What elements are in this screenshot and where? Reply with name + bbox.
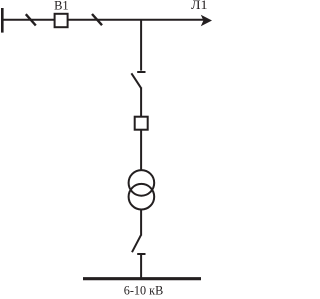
breaker slash mark 2: [92, 14, 102, 25]
node: left source terminal bar: [1, 8, 4, 33]
transformer T1 primary winding: [129, 170, 155, 196]
svg-text:В1: В1: [54, 0, 69, 12]
wire: fuse to transformer: [140, 130, 142, 171]
arrowhead of line L1: [201, 15, 212, 27]
disconnector QS1 contact tick: [137, 71, 145, 73]
breaker slash mark 1: [26, 14, 36, 25]
svg-text:6-10 кВ: 6-10 кВ: [124, 282, 164, 297]
switch B1 (box): [55, 14, 68, 27]
svg-text:Л1: Л1: [191, 0, 208, 12]
wire: between disconnector and fuse: [140, 88, 142, 118]
wire: transformer to lower disconnector: [140, 209, 142, 236]
disconnector QS1 blade: [131, 73, 141, 88]
transformer T1 secondary winding: [129, 184, 155, 210]
disconnector QS2 blade: [132, 235, 141, 252]
wire: disconnector to busbar: [140, 254, 142, 279]
disconnector QS2 contact tick: [137, 253, 145, 255]
wire: vertical drop from feeder: [140, 20, 142, 71]
busbar 6-10 kV: [83, 277, 201, 280]
fuse box: [135, 117, 148, 130]
wire: top horizontal feeder line: [2, 19, 204, 21]
